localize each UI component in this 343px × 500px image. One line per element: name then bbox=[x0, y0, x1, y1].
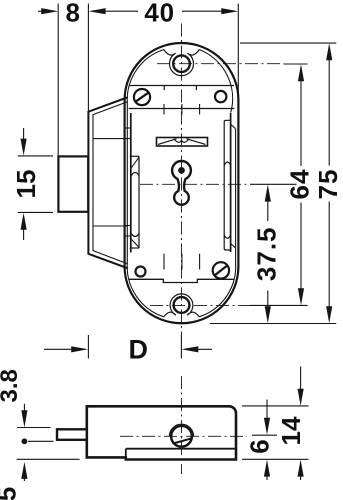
dim 15 arrow line top bbox=[23, 128, 25, 147]
arrow dim5 bbox=[21, 462, 27, 479]
dim 8/40 line shared bbox=[97, 10, 139, 12]
bottom counterbore omega loop bbox=[164, 294, 200, 317]
dim 6 arrow line top bbox=[266, 400, 268, 426]
slot hatch center curl left bbox=[174, 139, 182, 142]
arrow dim15 top bbox=[21, 139, 27, 156]
right rail left edge bbox=[224, 120, 230, 250]
svg-text:8: 8 bbox=[65, 0, 79, 28]
arrow dim6 bottom bbox=[264, 460, 270, 477]
D tick left bbox=[87, 335, 89, 359]
left slot top diagonal bbox=[131, 157, 139, 168]
top left screw bbox=[134, 89, 150, 105]
ext line bolt bottom bbox=[18, 211, 53, 213]
top plate tick left bbox=[163, 86, 165, 91]
cylinder chord bbox=[173, 438, 192, 443]
dim 14 arrow line top bbox=[300, 367, 302, 398]
bottom plate edge bbox=[129, 279, 234, 282]
arrow dim8/40 shared bbox=[89, 8, 106, 14]
top plate edge bbox=[129, 85, 234, 87]
svg-text:D: D bbox=[128, 334, 148, 364]
dim 75 line bottom bbox=[328, 202, 330, 315]
vertical centerline bottom view bbox=[180, 376, 182, 474]
flange outer edge bbox=[88, 97, 127, 268]
top hole horizontal centerline bbox=[157, 63, 284, 65]
keyhole center dot bbox=[178, 167, 185, 174]
left slot bottom tick bbox=[130, 247, 139, 249]
svg-text:64: 64 bbox=[284, 169, 314, 200]
svg-text:75: 75 bbox=[313, 169, 343, 200]
bolt axis line bbox=[28, 440, 54, 442]
lock case inner outline bottomleft bbox=[127, 263, 163, 317]
arrow dim15 bottom bbox=[21, 213, 27, 230]
dim 8 line left bbox=[38, 10, 51, 12]
arrow dim64 bottom bbox=[298, 288, 304, 305]
arrow dim75 bottom bbox=[326, 306, 332, 323]
dim 40 line right bbox=[182, 10, 230, 12]
top tick right bbox=[199, 104, 201, 115]
ext line bolt top side bbox=[17, 427, 51, 429]
ext line keyhole axis right bbox=[250, 183, 297, 185]
plate step line bbox=[126, 448, 236, 450]
bottom hole horizontal centerline bbox=[150, 304, 250, 306]
ext line case right bbox=[237, 4, 239, 101]
arrow dim64 top bbox=[298, 64, 304, 81]
svg-text:6: 6 bbox=[245, 439, 275, 453]
dim 64 line top bbox=[300, 73, 302, 166]
arrow dim8 left bbox=[41, 8, 58, 14]
top screw hole bold circle bbox=[173, 55, 190, 72]
vertical centerline front view bbox=[180, 24, 182, 339]
lock case inner outline topright bbox=[200, 50, 233, 113]
keyhole horizontal centerline bbox=[140, 183, 250, 185]
arrow dim40 right bbox=[221, 8, 238, 14]
arrow dim37.5 bottom bbox=[265, 306, 271, 323]
top tick left bbox=[163, 104, 165, 115]
dim 3.8 arrow line bbox=[23, 404, 25, 419]
bottom tick right bbox=[199, 254, 201, 270]
hatched slot rectangle bbox=[157, 138, 208, 147]
D arrow line right bbox=[190, 348, 212, 350]
lock case inner outline bottomright bbox=[200, 263, 236, 317]
top tick middle bbox=[181, 104, 183, 115]
arrow dim14 top bbox=[298, 389, 304, 406]
arrow dim14 bottom bbox=[298, 460, 304, 477]
arrow dim6 top bbox=[264, 418, 270, 435]
ext line case bottom right bbox=[210, 323, 336, 325]
right rail bottom chamfer bbox=[231, 244, 236, 248]
cylinder bold circle bbox=[171, 426, 192, 447]
lock case outer outline bbox=[125, 43, 239, 323]
left case tab upper bbox=[125, 128, 131, 139]
dim 75 line top bbox=[328, 52, 330, 166]
dim 15 arrow line bottom bbox=[23, 222, 25, 241]
top plate tick right bbox=[195, 86, 197, 91]
cylinder outer arc bbox=[169, 424, 193, 436]
left slot top arch bbox=[131, 173, 139, 176]
D tick right bbox=[180, 335, 182, 359]
top counterbore omega loop bbox=[164, 49, 200, 75]
dim 64 line bottom bbox=[300, 203, 302, 297]
ext line flange face bbox=[87, 4, 89, 112]
flange inner edge bbox=[93, 102, 128, 264]
svg-text:40: 40 bbox=[144, 0, 175, 28]
ext line bolt tip bbox=[57, 4, 59, 157]
svg-text:5: 5 bbox=[0, 487, 21, 500]
arrow dim75 top bbox=[326, 43, 332, 60]
arrow dim3.8 bbox=[21, 410, 27, 427]
ext line body bottom right bbox=[242, 458, 309, 460]
dim 37.5 line bottom bbox=[267, 291, 269, 315]
svg-text:3.8: 3.8 bbox=[0, 369, 23, 402]
lock case inner outline left+topleft bbox=[127, 50, 163, 263]
right rail top chamfer bbox=[231, 124, 236, 128]
ext line top hole right bbox=[284, 63, 308, 65]
ext line bottom hole right bbox=[250, 304, 308, 306]
left case tab lower bbox=[125, 226, 131, 237]
arrow dimD left bbox=[71, 346, 88, 352]
flange guide line lower bbox=[93, 225, 128, 227]
right rail inner U bbox=[224, 235, 230, 238]
ext line body top right bbox=[242, 405, 309, 407]
flange guide line upper bbox=[93, 138, 128, 140]
bottom left hole bbox=[136, 267, 146, 277]
slot hatch right diagonal bbox=[187, 139, 206, 145]
bottom tick left bbox=[163, 254, 165, 270]
ext line body bottom left bbox=[17, 458, 80, 460]
arrow dimD right bbox=[181, 346, 198, 352]
arrow dim37.5 top bbox=[265, 185, 271, 202]
slot hatch left diagonal bbox=[158, 139, 177, 145]
left slot bottom diagonal bbox=[131, 239, 139, 247]
flange junction line bbox=[130, 113, 132, 253]
dim 37.5 line top bbox=[267, 194, 269, 222]
ext line bolt top bbox=[18, 155, 53, 157]
svg-text:14: 14 bbox=[276, 416, 306, 445]
cylinder horizontal centerline bbox=[120, 435, 247, 437]
ext line cylinder axis right bbox=[252, 434, 277, 436]
left slot right edge bbox=[138, 156, 140, 248]
dim 6 arrow line bottom bbox=[266, 469, 268, 481]
plate step vertical bbox=[125, 449, 127, 460]
svg-text:15: 15 bbox=[11, 170, 41, 199]
top right hole bbox=[215, 91, 226, 102]
ext line case top right bbox=[240, 42, 336, 44]
dim 14 arrow line bottom bbox=[300, 469, 302, 481]
right junction line bbox=[230, 113, 232, 252]
bottom tick middle bbox=[181, 254, 183, 270]
top inner plate line bbox=[129, 108, 235, 110]
D arrow line left bbox=[44, 348, 80, 350]
bolt front view bbox=[58, 156, 88, 211]
left slot top tick bbox=[130, 155, 139, 157]
bottom right screw bbox=[213, 262, 229, 278]
left slot bottom arch bbox=[131, 234, 139, 237]
bolt axis dot bbox=[22, 438, 28, 444]
slot hatch center curl right bbox=[182, 139, 190, 142]
keyhole bbox=[172, 161, 191, 205]
body outline bbox=[87, 406, 236, 459]
right rail inner arch bbox=[224, 162, 230, 166]
lock case inner right straight bbox=[235, 129, 237, 263]
bottom screw hole bold circle bbox=[174, 297, 190, 313]
bolt side view bbox=[57, 429, 87, 440]
svg-text:37.5: 37.5 bbox=[252, 226, 282, 281]
dim 5 arrow line bbox=[23, 471, 25, 482]
